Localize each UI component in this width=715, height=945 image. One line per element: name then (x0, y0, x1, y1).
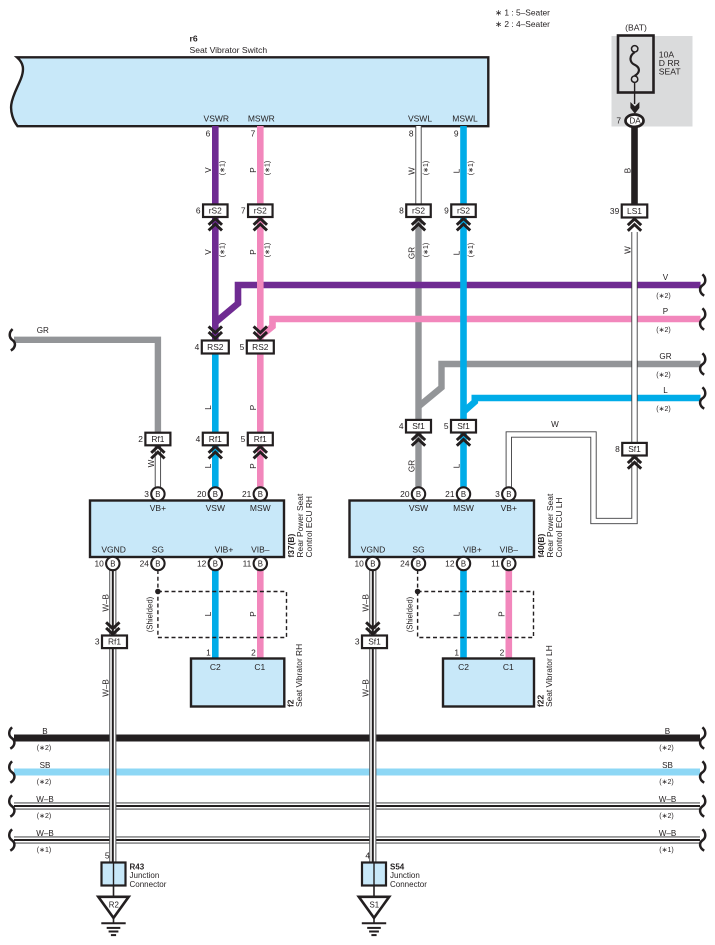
svg-text:C1: C1 (254, 662, 265, 672)
svg-text:(∗2): (∗2) (659, 813, 673, 820)
svg-text:1: 1 (454, 648, 459, 658)
svg-text:(∗2): (∗2) (656, 372, 670, 379)
svg-text:4: 4 (399, 421, 404, 431)
svg-text:SB: SB (662, 761, 673, 770)
svg-text:P: P (249, 167, 258, 172)
svg-text:B: B (461, 559, 466, 568)
svg-text:W–B: W–B (362, 594, 371, 612)
svg-text:11: 11 (243, 558, 252, 568)
svg-text:3: 3 (95, 637, 100, 647)
svg-text:SG: SG (152, 545, 164, 555)
svg-text:5: 5 (444, 421, 449, 431)
svg-text:VSWL: VSWL (408, 114, 432, 124)
svg-text:(Shielded): (Shielded) (146, 596, 155, 632)
svg-text:RS2: RS2 (207, 342, 224, 352)
svg-text:Sf1: Sf1 (628, 444, 641, 454)
svg-text:L: L (204, 611, 213, 616)
svg-text:1: 1 (206, 648, 211, 658)
svg-text:9: 9 (444, 206, 449, 216)
svg-text:MSWR: MSWR (248, 114, 275, 124)
svg-text:39: 39 (610, 206, 620, 216)
svg-text:21: 21 (242, 489, 252, 499)
svg-text:SEAT: SEAT (659, 67, 682, 77)
svg-text:P: P (663, 307, 668, 316)
svg-text:24: 24 (400, 558, 410, 568)
svg-text:S54: S54 (390, 863, 405, 872)
svg-text:5: 5 (241, 434, 246, 444)
svg-text:L: L (452, 611, 461, 616)
svg-text:VB+: VB+ (150, 503, 166, 513)
svg-text:MSW: MSW (453, 503, 474, 513)
svg-text:Rf1: Rf1 (108, 637, 121, 647)
svg-text:8: 8 (615, 444, 620, 454)
svg-text:(∗1): (∗1) (220, 243, 227, 257)
svg-text:(∗2): (∗2) (656, 293, 670, 300)
svg-text:B: B (506, 490, 511, 499)
svg-text:(∗1): (∗1) (220, 161, 227, 175)
svg-text:∗ 2 : 4–Seater: ∗ 2 : 4–Seater (495, 19, 550, 29)
svg-text:rS2: rS2 (254, 206, 267, 216)
svg-text:(∗2): (∗2) (659, 779, 673, 786)
svg-text:GR: GR (37, 326, 49, 335)
svg-text:VGND: VGND (101, 545, 126, 555)
svg-text:L: L (452, 250, 461, 255)
svg-text:Sf1: Sf1 (412, 421, 425, 431)
svg-text:B: B (370, 559, 375, 568)
svg-text:6: 6 (196, 206, 201, 216)
svg-text:W–B: W–B (659, 829, 677, 838)
svg-text:Control ECU LH: Control ECU LH (554, 497, 564, 557)
svg-text:(∗1): (∗1) (423, 243, 430, 257)
svg-text:MSW: MSW (250, 503, 271, 513)
svg-text:10: 10 (354, 558, 364, 568)
svg-text:rS2: rS2 (457, 206, 470, 216)
svg-text:2: 2 (500, 648, 505, 658)
svg-text:4: 4 (195, 342, 200, 352)
svg-text:9: 9 (454, 129, 459, 139)
svg-text:2: 2 (251, 648, 256, 658)
svg-text:Seat Vibrator RH: Seat Vibrator RH (294, 644, 304, 707)
svg-text:VGND: VGND (361, 545, 386, 555)
svg-text:(∗1): (∗1) (265, 243, 272, 257)
svg-text:7: 7 (241, 206, 246, 216)
svg-text:(∗2): (∗2) (659, 745, 673, 752)
svg-text:(∗2): (∗2) (656, 327, 670, 334)
svg-text:VSW: VSW (206, 503, 225, 513)
svg-text:(∗2): (∗2) (37, 813, 51, 820)
svg-text:12: 12 (445, 558, 455, 568)
svg-text:10: 10 (94, 558, 104, 568)
svg-text:VIB+: VIB+ (215, 545, 234, 555)
svg-text:VSWR: VSWR (204, 114, 230, 124)
svg-text:20: 20 (197, 489, 207, 499)
svg-text:V: V (204, 249, 213, 255)
svg-text:7: 7 (251, 129, 256, 139)
svg-text:B: B (213, 559, 218, 568)
svg-text:W: W (551, 420, 559, 429)
svg-text:L: L (452, 168, 461, 173)
svg-text:5: 5 (240, 342, 245, 352)
svg-text:VSW: VSW (409, 503, 428, 513)
svg-text:R2: R2 (109, 900, 119, 909)
svg-text:B: B (506, 559, 511, 568)
svg-text:W: W (623, 246, 632, 254)
svg-text:8: 8 (399, 206, 404, 216)
svg-text:R43: R43 (130, 863, 145, 872)
svg-text:W–B: W–B (36, 795, 54, 804)
svg-text:L: L (663, 386, 668, 395)
svg-text:GR: GR (407, 460, 416, 472)
svg-text:(∗1): (∗1) (659, 847, 673, 854)
svg-text:C2: C2 (458, 662, 469, 672)
svg-text:Rf1: Rf1 (151, 434, 164, 444)
svg-text:C1: C1 (503, 662, 514, 672)
svg-text:8: 8 (409, 129, 414, 139)
svg-text:B: B (155, 490, 160, 499)
svg-text:Control ECU RH: Control ECU RH (304, 496, 314, 557)
svg-text:Junction: Junction (130, 871, 160, 880)
svg-text:(∗1): (∗1) (423, 161, 430, 175)
svg-text:(∗1): (∗1) (37, 847, 51, 854)
svg-text:B: B (623, 168, 632, 173)
svg-text:7: 7 (616, 116, 621, 126)
svg-text:21: 21 (445, 489, 455, 499)
svg-text:S1: S1 (369, 900, 379, 909)
svg-text:5: 5 (105, 851, 110, 861)
svg-text:B: B (213, 490, 218, 499)
svg-text:B: B (258, 559, 263, 568)
svg-text:P: P (249, 405, 258, 410)
svg-text:C2: C2 (210, 662, 221, 672)
svg-text:MSWL: MSWL (452, 114, 478, 124)
svg-text:B: B (258, 490, 263, 499)
svg-text:Rf1: Rf1 (209, 434, 222, 444)
svg-text:4: 4 (196, 434, 201, 444)
svg-text:24: 24 (140, 558, 150, 568)
svg-text:SG: SG (412, 545, 424, 555)
svg-text:VIB–: VIB– (251, 545, 270, 555)
svg-text:W–B: W–B (102, 679, 111, 697)
svg-text:4: 4 (365, 851, 370, 861)
svg-text:Connector: Connector (390, 880, 427, 889)
svg-text:W–B: W–B (102, 594, 111, 612)
svg-text:GR: GR (659, 352, 671, 361)
svg-text:L: L (204, 405, 213, 410)
svg-text:(∗1): (∗1) (265, 161, 272, 175)
svg-text:L: L (452, 463, 461, 468)
svg-text:P: P (249, 611, 258, 616)
svg-text:W: W (407, 167, 416, 175)
svg-text:B: B (416, 490, 421, 499)
svg-text:Seat Vibrator Switch: Seat Vibrator Switch (190, 45, 268, 55)
svg-text:20: 20 (400, 489, 410, 499)
svg-text:rS2: rS2 (412, 206, 425, 216)
svg-text:Sf1: Sf1 (457, 421, 470, 431)
svg-text:GR: GR (407, 247, 416, 259)
svg-text:VB+: VB+ (501, 503, 517, 513)
svg-text:(Shielded): (Shielded) (405, 596, 414, 632)
svg-text:Sf1: Sf1 (368, 637, 381, 647)
svg-text:6: 6 (206, 129, 211, 139)
svg-text:Seat Vibrator LH: Seat Vibrator LH (544, 645, 554, 707)
svg-text:V: V (663, 273, 669, 282)
svg-text:B: B (416, 559, 421, 568)
svg-text:V: V (204, 167, 213, 173)
svg-text:(BAT): (BAT) (625, 23, 647, 33)
svg-text:B: B (42, 727, 47, 736)
svg-text:B: B (461, 490, 466, 499)
svg-text:RS2: RS2 (252, 342, 269, 352)
svg-text:rS2: rS2 (209, 206, 222, 216)
svg-text:3: 3 (495, 489, 500, 499)
svg-text:W–B: W–B (362, 679, 371, 697)
svg-text:Junction: Junction (390, 871, 420, 880)
svg-text:B: B (665, 727, 670, 736)
svg-text:P: P (498, 611, 507, 616)
svg-text:P: P (249, 249, 258, 254)
svg-text:r6: r6 (190, 34, 198, 44)
svg-text:W–B: W–B (659, 795, 677, 804)
svg-text:B: B (155, 559, 160, 568)
svg-text:W: W (147, 459, 156, 467)
svg-text:12: 12 (197, 558, 207, 568)
svg-text:(∗2): (∗2) (656, 406, 670, 413)
svg-text:P: P (249, 463, 258, 468)
svg-text:3: 3 (144, 489, 149, 499)
svg-text:VIB+: VIB+ (463, 545, 482, 555)
svg-text:(∗2): (∗2) (37, 745, 51, 752)
svg-text:11: 11 (491, 558, 500, 568)
svg-text:2: 2 (138, 434, 143, 444)
svg-text:DA: DA (629, 117, 641, 126)
svg-text:(∗1): (∗1) (468, 243, 475, 257)
svg-text:Connector: Connector (130, 880, 167, 889)
svg-text:W–B: W–B (36, 829, 54, 838)
svg-text:Rf1: Rf1 (254, 434, 267, 444)
svg-text:LS1: LS1 (627, 206, 642, 216)
svg-text:(∗1): (∗1) (468, 161, 475, 175)
svg-text:B: B (110, 559, 115, 568)
svg-text:(∗2): (∗2) (37, 779, 51, 786)
svg-text:VIB–: VIB– (500, 545, 519, 555)
svg-text:3: 3 (355, 637, 360, 647)
svg-text:SB: SB (40, 761, 51, 770)
svg-text:L: L (204, 463, 213, 468)
svg-text:∗ 1 : 5–Seater: ∗ 1 : 5–Seater (495, 8, 550, 18)
